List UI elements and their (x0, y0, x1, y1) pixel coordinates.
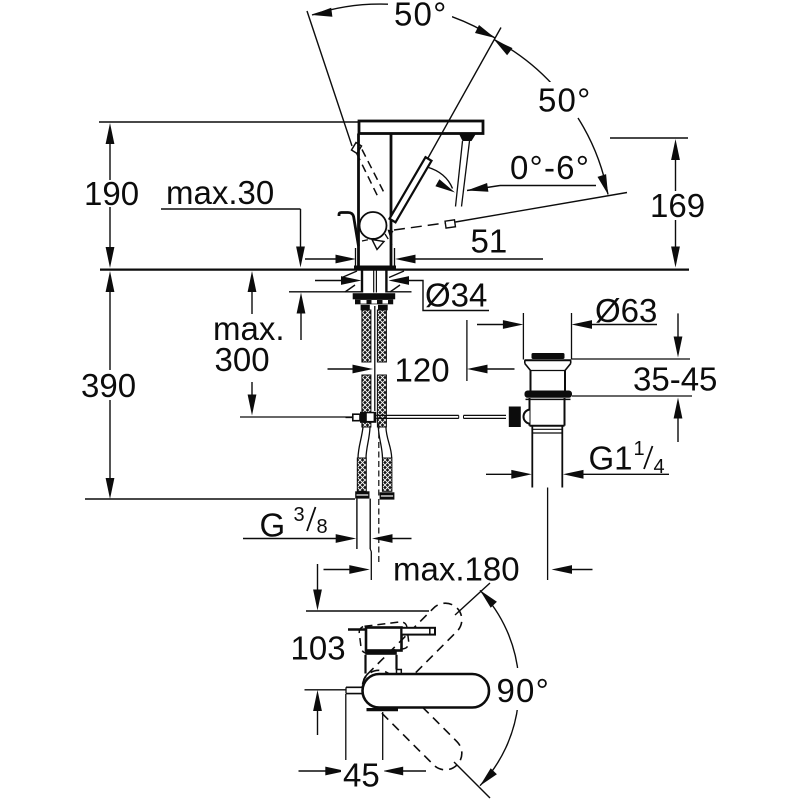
dimension 51 (305, 258, 337, 260)
svg-text:8: 8 (317, 516, 328, 538)
arrowhead arc2 top (494, 40, 513, 56)
arrow up 190 (106, 123, 115, 144)
pop-up rod faucet connector (360, 412, 376, 423)
svg-text:51: 51 (471, 223, 508, 260)
body block (top view) (348, 628, 366, 630)
6 degree slant line (456, 193, 628, 223)
cartridge ball (360, 212, 387, 239)
dimension 169 (671, 139, 680, 160)
max.30 leader shelf (161, 208, 301, 210)
supply pipe below left cap (356, 499, 358, 549)
swivel radius line upper (455, 583, 490, 615)
pop-up O-ring (black) (525, 391, 573, 398)
left slant reference line (50 deg) (307, 11, 352, 146)
svg-text:120: 120 (395, 352, 450, 389)
aerator tab (top view) (346, 686, 363, 688)
0-6 label shelf (500, 185, 596, 187)
arrow down 390 (106, 478, 115, 499)
arrow down max.30 (296, 247, 305, 268)
spout capsule (top view) (363, 674, 490, 708)
arrowhead arc1 right (475, 25, 495, 38)
dashed swivel capsule down 45deg (356, 664, 469, 777)
rod port arc (523, 410, 529, 424)
rod knob (black) (509, 407, 521, 428)
pop-up plug cap (black) (532, 353, 565, 359)
hose taper tails (358, 427, 363, 458)
countertop deck line (100, 269, 689, 271)
arrow up max.30 (counter underside) (297, 293, 306, 314)
angle arc 50deg no.1 (312, 4, 388, 15)
pop-up flange (525, 359, 572, 361)
valve seat V symbol (372, 240, 384, 250)
arrowhead arc90 top (480, 590, 497, 608)
dimension G1 1/4 (486, 473, 512, 475)
angle arc 50deg no.2 (494, 40, 553, 86)
pop-up upper cylinder (530, 371, 532, 391)
counter section hatch ticks (342, 271, 357, 278)
water stream lines (456, 141, 463, 207)
extension line 45 right (382, 712, 384, 786)
reference line bottom of 390 (85, 498, 355, 500)
svg-text:0°-6°: 0°-6° (510, 149, 590, 186)
svg-text:3: 3 (294, 504, 305, 526)
arrow down 190 (106, 247, 115, 268)
aerator outlet (black) (459, 134, 476, 141)
stud end cap left (355, 491, 369, 498)
svg-text:max.30: max.30 (166, 174, 274, 211)
faucet base plate (black) (354, 266, 396, 270)
black mark at lever base (388, 230, 394, 238)
thick under-capsule line (367, 708, 399, 711)
svg-text:45: 45 (343, 757, 380, 794)
braided supply hose left upper (362, 310, 371, 362)
lever handle (closed position) (390, 157, 432, 222)
braided supply hose right upper (377, 310, 386, 362)
arrow up 390 (106, 271, 115, 292)
arrowhead arc90 bottom (480, 768, 497, 786)
pop-up valve body (526, 398, 571, 400)
dimension 45 (299, 770, 327, 772)
mounting shank (361, 270, 363, 293)
extension lines Ø63 (522, 313, 524, 360)
svg-text:50°: 50° (394, 0, 448, 33)
small arc lever to stream (427, 167, 453, 189)
fraction slashes (644, 446, 653, 469)
arrowhead 0-6 left (467, 183, 488, 192)
reference lines 35-45 (571, 358, 690, 360)
dimension 103 (317, 564, 319, 590)
arrowhead arc1 left (312, 8, 332, 17)
reference line 103 bottom (305, 689, 347, 691)
body column (top view) (364, 655, 366, 674)
pop-up rod horizontal (376, 414, 458, 416)
braided supply hose right lower (377, 375, 386, 427)
svg-text:35-45: 35-45 (633, 361, 717, 398)
svg-text:50°: 50° (538, 82, 592, 119)
lever axis extension line (428, 28, 501, 159)
countertop underside line (289, 291, 361, 293)
dashed swivel capsule up 45deg (356, 596, 469, 709)
dashed marks below ball (362, 234, 392, 245)
body shadow bar (black) (365, 651, 397, 655)
svg-text:390: 390 (81, 367, 136, 404)
dimension 190 vertical line (109, 142, 111, 180)
extension line 45 left (345, 694, 347, 790)
threaded stud G3/8 right (382, 458, 392, 491)
faucet centerline between hoses (374, 306, 376, 411)
faucet spout top bar (359, 121, 483, 134)
arrowhead arc2 bottom (598, 174, 609, 194)
svg-text:1: 1 (634, 438, 645, 460)
svg-text:Ø34: Ø34 (425, 277, 487, 314)
dashed centerline below connector (378, 423, 380, 565)
dashed body outline (swivel position) (359, 621, 410, 654)
drain centerline (547, 488, 549, 581)
mounting nut (black) (353, 293, 396, 299)
swivel arc 90deg (480, 590, 519, 677)
extension line 120 right (466, 320, 468, 381)
dimension Ø63 (477, 324, 504, 326)
horseshoe washer (355, 299, 393, 304)
svg-text:4: 4 (654, 456, 665, 478)
dimension leader Ø34 (315, 280, 342, 282)
extension line 169 top (610, 137, 688, 139)
arrowhead small arc (435, 179, 455, 192)
svg-text:103: 103 (291, 630, 346, 667)
faucet body column (357, 134, 360, 267)
lever rod (top view) (402, 628, 436, 635)
threaded stud G3/8 left (357, 458, 366, 491)
side hook (handle profile) (339, 213, 359, 247)
svg-text:G: G (260, 507, 286, 544)
svg-text:max.180: max.180 (393, 551, 520, 588)
dimension max.180 (324, 569, 350, 571)
reference line bottom of max.300 / pop-up rod level (240, 416, 352, 418)
dashed lever-down axis (394, 223, 445, 230)
dimension max.300 (248, 271, 257, 292)
swivel radius line lower (454, 762, 490, 798)
extension line: top of faucet (190 ref) (99, 121, 358, 123)
dimension 35-45 (677, 313, 679, 338)
dimension 120 (328, 368, 354, 370)
stud end cap right (380, 492, 395, 499)
dimension G 3/8 (243, 538, 337, 540)
dimension 390 vertical line (109, 290, 111, 370)
svg-text:190: 190 (84, 175, 139, 212)
break square on axis (445, 220, 455, 228)
extension line top of bottom view (306, 610, 429, 612)
svg-text:G1: G1 (589, 440, 633, 477)
hose ferrules (361, 305, 370, 311)
extension line max.180 left (370, 552, 372, 581)
dashed lever tip (open position up-left) (352, 143, 362, 154)
braided supply hose left lower (362, 375, 371, 427)
svg-text:300: 300 (215, 341, 270, 378)
svg-text:90°: 90° (497, 672, 551, 709)
pop-up tailpipe (531, 426, 533, 488)
svg-text:169: 169 (650, 187, 705, 224)
svg-text:Ø63: Ø63 (595, 292, 657, 329)
